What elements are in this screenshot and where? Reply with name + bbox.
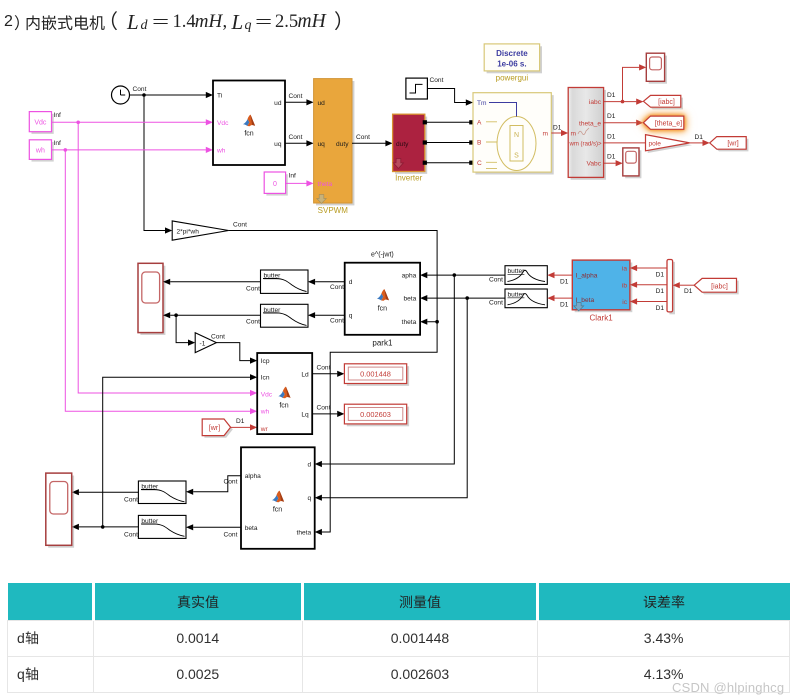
wire Vdc down to estimator xyxy=(78,122,250,393)
svg-text:D1: D1 xyxy=(236,418,245,425)
wire wm xyxy=(604,142,646,144)
goto [iabc] xyxy=(643,95,683,109)
wire step to Tm xyxy=(427,89,466,103)
svg-text:Cont: Cont xyxy=(330,284,344,291)
svg-text:Clark1: Clark1 xyxy=(590,314,614,323)
svg-text:Cont: Cont xyxy=(330,318,344,325)
svg-text:apha: apha xyxy=(402,273,417,280)
wire ic xyxy=(637,301,667,303)
svg-text:fcn: fcn xyxy=(244,131,253,138)
subsystem Clark1 xyxy=(572,260,632,312)
svg-text:park1: park1 xyxy=(372,339,393,348)
wire phase B xyxy=(425,142,471,144)
svg-text:Icp: Icp xyxy=(261,358,270,365)
svg-text:Ld: Ld xyxy=(301,371,309,378)
bus selector (machine measurements) xyxy=(568,88,606,180)
wire wh down to estimator xyxy=(65,150,250,411)
svg-text:Inf: Inf xyxy=(54,140,61,147)
goto [theta_e] (highlighted) xyxy=(643,116,683,129)
svg-text:wh: wh xyxy=(260,409,270,416)
svg-text:D1: D1 xyxy=(607,154,616,161)
svg-text:iabc: iabc xyxy=(589,99,602,106)
svg-text:ud: ud xyxy=(274,100,282,107)
wire gain -1 to Icp xyxy=(216,343,250,361)
from [wr] xyxy=(202,419,233,438)
svg-text:[iabc]: [iabc] xyxy=(711,283,728,290)
svg-text:SVPWM: SVPWM xyxy=(318,206,349,215)
wire ia xyxy=(637,267,667,269)
svg-text:wh: wh xyxy=(35,147,45,154)
svg-text:pole: pole xyxy=(649,141,662,148)
svg-text:Cont: Cont xyxy=(224,531,238,538)
svg-text:Discrete: Discrete xyxy=(496,49,528,58)
svg-text:Lq: Lq xyxy=(301,411,309,418)
wire q down to gain -1 xyxy=(176,315,188,342)
svg-text:fcn: fcn xyxy=(378,306,387,313)
svg-text:Tm: Tm xyxy=(477,100,487,107)
svg-text:q: q xyxy=(308,495,312,502)
wire butter d to scope xyxy=(170,281,260,283)
wire Icn (long feedback) xyxy=(103,377,250,527)
scope dq (tall) xyxy=(138,263,165,335)
svg-text:B: B xyxy=(477,140,482,147)
svg-text:q: q xyxy=(349,313,353,320)
wire Vdc to fcn xyxy=(52,121,207,123)
svg-text:Cont: Cont xyxy=(124,497,138,504)
from Vdc xyxy=(29,112,53,134)
svg-text:C: C xyxy=(477,160,482,167)
filter butter d (flipped) xyxy=(261,270,309,293)
svg-text:A: A xyxy=(477,119,482,126)
junction theta xyxy=(435,320,439,324)
wire butter ba out to park1 apha xyxy=(427,274,505,276)
svg-text:ib: ib xyxy=(622,282,627,289)
svg-text:[iabc]: [iabc] xyxy=(658,99,675,106)
svg-text:Cont: Cont xyxy=(289,93,303,100)
svg-text:Cont: Cont xyxy=(430,77,444,84)
wire alpha to butter xyxy=(193,476,241,492)
svg-text:ia: ia xyxy=(622,266,627,273)
svg-text:-1: -1 xyxy=(200,341,206,348)
svg-text:D1: D1 xyxy=(695,134,704,141)
svg-text:0.001448: 0.001448 xyxy=(360,370,391,379)
svg-text:Icn: Icn xyxy=(261,375,270,382)
wire m xyxy=(551,132,561,134)
filter butter alpha low (flipped) xyxy=(138,481,186,504)
wire I_alpha to butter xyxy=(554,274,572,276)
svg-text:[theta_e]: [theta_e] xyxy=(655,121,682,128)
svg-text:D1: D1 xyxy=(560,302,569,309)
wire iabc xyxy=(604,101,637,103)
svg-text:Cont: Cont xyxy=(246,319,260,326)
scope iabc xyxy=(646,53,667,83)
constant 0 xyxy=(264,172,288,196)
svg-text:beta: beta xyxy=(403,296,416,303)
svg-text:theta: theta xyxy=(318,181,333,188)
scope alphabeta (bottom) xyxy=(46,473,74,548)
svg-text:D1: D1 xyxy=(656,288,665,295)
svg-text:Vdc: Vdc xyxy=(261,391,273,398)
gain 2*pi*wh xyxy=(172,221,228,240)
svg-text:uq: uq xyxy=(274,141,282,148)
scope Vabc xyxy=(623,148,642,178)
svg-text:ic: ic xyxy=(622,299,627,306)
wire beta to butter xyxy=(193,526,241,528)
svg-text:duty: duty xyxy=(396,141,409,148)
wire from [iabc] to demux xyxy=(680,284,695,286)
wire pole to [wr] xyxy=(690,142,703,144)
step Tm xyxy=(406,78,428,99)
svg-text:d: d xyxy=(308,462,312,469)
svg-text:duty: duty xyxy=(336,141,349,148)
wire butter bb out to park1 beta xyxy=(427,297,505,299)
svg-text:Cont: Cont xyxy=(489,299,503,306)
svg-text:D1: D1 xyxy=(607,92,616,99)
svg-text:Cont: Cont xyxy=(224,479,238,486)
wire duty xyxy=(352,142,386,144)
wire theta_e xyxy=(604,122,637,124)
svg-text:Vdc: Vdc xyxy=(217,120,229,127)
filter butter bandpass beta (flipped) xyxy=(505,289,547,308)
wire Lq xyxy=(312,413,337,415)
clock xyxy=(112,86,130,104)
svg-text:Cont: Cont xyxy=(124,531,138,538)
junction Icn xyxy=(101,525,105,529)
svg-text:Inverter: Inverter xyxy=(395,174,422,183)
svg-text:2*pi*wh: 2*pi*wh xyxy=(177,228,200,235)
wire ib xyxy=(637,284,667,286)
svg-text:wm (rad/s)>: wm (rad/s)> xyxy=(569,140,602,147)
gain -1 xyxy=(195,333,216,353)
svg-text:Cont: Cont xyxy=(317,364,331,371)
from [iabc] xyxy=(694,278,739,294)
wire phase A xyxy=(425,121,471,123)
svg-text:Inf: Inf xyxy=(289,173,296,180)
svg-text:Cont: Cont xyxy=(233,221,247,228)
svg-text:Cont: Cont xyxy=(356,134,370,141)
svg-text:Cont: Cont xyxy=(289,134,303,141)
MATLAB function U1 (ud/uq) xyxy=(213,81,285,166)
svg-text:D1: D1 xyxy=(560,278,569,285)
svg-text:powergui: powergui xyxy=(496,74,529,83)
svg-text:e^(-jwt): e^(-jwt) xyxy=(371,252,394,259)
svg-text:D1: D1 xyxy=(607,113,616,120)
svg-text:butter: butter xyxy=(508,268,526,275)
svg-text:Cont: Cont xyxy=(211,333,225,340)
svg-text:D1: D1 xyxy=(553,124,562,131)
svg-text:Cont: Cont xyxy=(317,404,331,411)
svg-text:I_alpha: I_alpha xyxy=(576,273,598,280)
wire butter q to scope xyxy=(170,314,260,316)
svg-text:m: m xyxy=(543,131,549,138)
svg-text:theta_e: theta_e xyxy=(579,120,601,127)
wire butter alpha to scope xyxy=(79,491,139,493)
svg-text:theta: theta xyxy=(402,319,417,326)
wire I_beta to butter xyxy=(554,297,572,299)
wire Ld xyxy=(312,373,337,375)
wire butter beta to scope xyxy=(79,526,139,528)
wire t down to gain 2*pi*wh xyxy=(144,95,165,231)
from wh xyxy=(29,140,53,162)
filter butter beta low (flipped) xyxy=(138,515,186,538)
wire park1 d to butter xyxy=(315,281,345,283)
wire clock to Ti xyxy=(130,94,207,96)
svg-text:fcn: fcn xyxy=(279,403,288,410)
svg-text:beta: beta xyxy=(245,525,258,532)
svg-text:theta: theta xyxy=(297,530,312,537)
svg-text:0: 0 xyxy=(273,181,277,188)
wire alpha down to dq block d xyxy=(322,275,455,464)
wire ud xyxy=(285,101,307,103)
svg-text:S: S xyxy=(514,153,519,160)
wire Vabc xyxy=(604,162,616,164)
svg-text:N: N xyxy=(514,132,519,139)
svg-text:Cont: Cont xyxy=(489,277,503,284)
wire theta xyxy=(286,182,307,184)
wire iabc to scope xyxy=(623,67,640,101)
PMSM machine xyxy=(473,93,554,175)
goto [wr] xyxy=(710,137,749,152)
svg-text:Cont: Cont xyxy=(246,286,260,293)
MATLAB function dq (bottom) xyxy=(241,447,315,549)
powergui xyxy=(484,44,542,73)
svg-text:wh: wh xyxy=(216,148,226,155)
wire wr xyxy=(231,426,250,428)
svg-text:[wr]: [wr] xyxy=(209,425,220,432)
MATLAB function Ld/Lq estimator xyxy=(257,353,312,434)
gain pole xyxy=(646,135,693,153)
subsystem Inverter xyxy=(393,114,428,174)
svg-text:D1: D1 xyxy=(684,288,693,295)
svg-text:Vdc: Vdc xyxy=(34,120,47,127)
junction wh xyxy=(64,148,68,152)
wire wt: gain to park1 theta and dq2alphabeta theta xyxy=(229,231,438,533)
svg-text:D1: D1 xyxy=(656,305,665,312)
wire phase C xyxy=(425,162,471,164)
svg-text:D1: D1 xyxy=(607,133,616,140)
junction alpha xyxy=(453,273,457,277)
svg-text:ud: ud xyxy=(318,100,326,107)
svg-text:uq: uq xyxy=(318,141,326,148)
junction Vdc xyxy=(76,121,80,125)
wire uq xyxy=(285,142,307,144)
svg-text:D1: D1 xyxy=(656,271,665,278)
svg-text:1e-06 s.: 1e-06 s. xyxy=(497,60,526,69)
svg-text:fcn: fcn xyxy=(273,507,282,514)
svg-text:[wr]: [wr] xyxy=(727,141,738,148)
wire wh to fcn xyxy=(52,149,207,151)
display Lq xyxy=(344,404,409,426)
wire beta down to dq block q xyxy=(322,298,467,498)
svg-text:Cont: Cont xyxy=(133,86,147,93)
filter butter q (flipped) xyxy=(261,304,309,327)
junction clock t xyxy=(142,93,146,97)
svg-text:wr: wr xyxy=(260,426,269,433)
display Ld xyxy=(344,364,409,386)
MATLAB function park1 xyxy=(345,252,420,335)
junction q to -1 xyxy=(174,313,178,317)
svg-text:0.002603: 0.002603 xyxy=(360,410,391,419)
svg-text:Ti: Ti xyxy=(217,93,223,100)
svg-text:Inf: Inf xyxy=(54,112,61,119)
svg-text:d: d xyxy=(349,279,353,286)
demux bar iabc xyxy=(667,260,675,315)
junction beta xyxy=(465,296,469,300)
wire park1 q to butter xyxy=(315,314,345,316)
svg-text:butter: butter xyxy=(508,292,526,299)
svg-text:alpha: alpha xyxy=(245,473,261,480)
subsystem SVPWM xyxy=(314,79,355,206)
svg-text:Vabc: Vabc xyxy=(586,161,601,168)
svg-text:m: m xyxy=(571,131,577,138)
junction iabc xyxy=(621,100,625,104)
filter butter bandpass alpha (flipped) xyxy=(505,266,547,285)
